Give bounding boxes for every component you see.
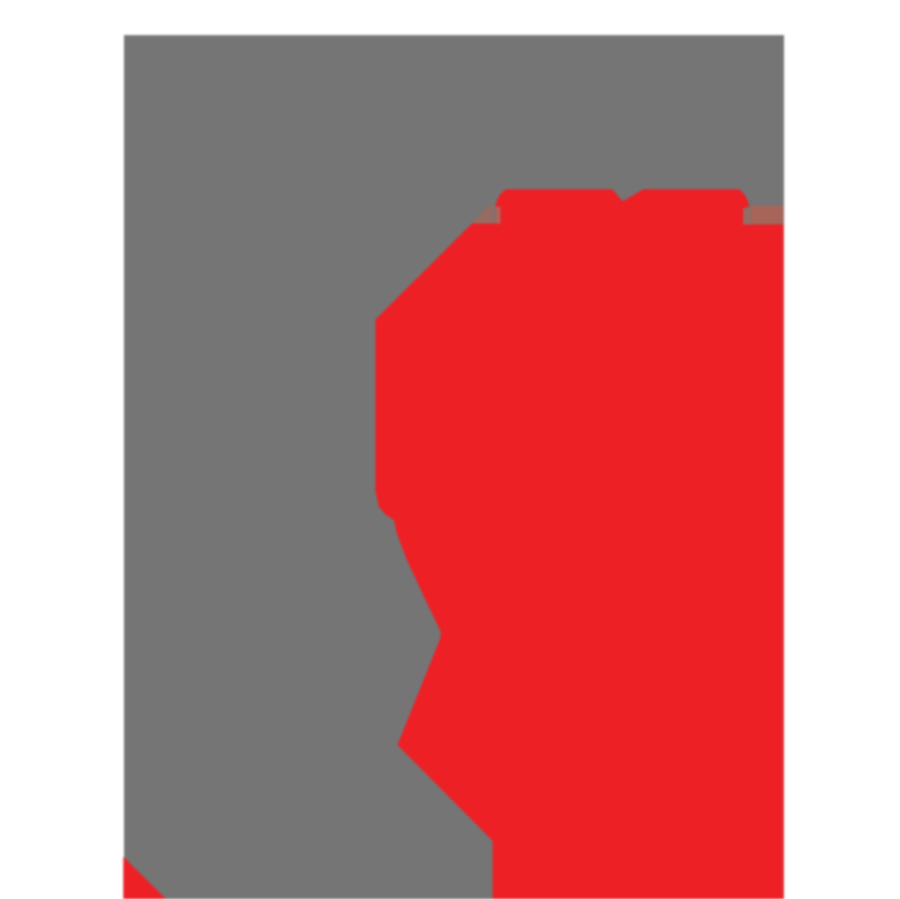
red letter M main shape <box>375 189 783 899</box>
muted overlay triangle left (shadow letter) <box>471 206 494 224</box>
red wedge bottom-left <box>123 857 166 899</box>
gray tile background <box>124 35 784 899</box>
gray outline gap left <box>494 206 496 224</box>
gray outline gap right <box>750 206 751 225</box>
muted rect A right <box>743 208 750 224</box>
muted strip B left <box>496 207 501 224</box>
muted strip right <box>751 206 784 224</box>
